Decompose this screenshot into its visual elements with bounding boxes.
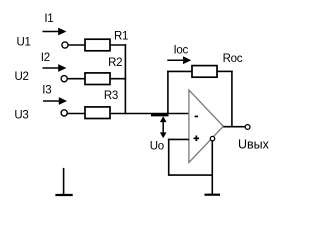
svg-text:U1: U1 — [17, 36, 31, 48]
current arrow I1 — [43, 28, 67, 36]
wire — [110, 44, 126, 46]
wire summing node to op-amp inverting input — [110, 113, 189, 115]
wire bottom — [168, 174, 212, 176]
input terminal U3 — [61, 110, 67, 116]
wire — [68, 113, 85, 115]
input terminal U2 — [61, 76, 67, 82]
svg-text:Uвых: Uвых — [238, 137, 270, 151]
op-amp common terminal on hypotenuse — [210, 136, 214, 140]
op-amp inverting pin mark — [195, 116, 198, 118]
svg-text:I3: I3 — [42, 85, 51, 97]
wire — [68, 44, 85, 46]
summing bus wire — [124, 44, 126, 114]
wire — [110, 78, 126, 80]
svg-text:I1: I1 — [44, 13, 53, 25]
svg-text:I2: I2 — [41, 52, 50, 64]
wire to ground — [211, 141, 213, 195]
svg-text:R2: R2 — [108, 57, 122, 69]
resistor Roc — [192, 66, 217, 78]
svg-text:Ioc: Ioc — [174, 45, 189, 57]
svg-text:R1: R1 — [114, 31, 128, 43]
resistor R3 — [85, 107, 110, 119]
op-amp non-inverting pin mark — [194, 136, 200, 142]
wire — [68, 78, 85, 80]
node thick segment at inverting input — [151, 114, 169, 116]
wire — [167, 70, 192, 72]
resistor R2 — [85, 73, 110, 85]
op-amp triangle — [189, 90, 223, 163]
feedback branch wire up — [167, 71, 169, 114]
input terminal U1 — [62, 42, 68, 48]
svg-text:R3: R3 — [104, 90, 118, 102]
svg-text:Roc: Roc — [223, 53, 243, 65]
output wire — [223, 126, 245, 128]
output terminal — [245, 125, 250, 130]
voltage arrow Uo (differential input) — [160, 116, 167, 138]
wire down — [168, 139, 170, 176]
svg-text:U3: U3 — [14, 109, 28, 121]
svg-text:Uo: Uo — [150, 141, 164, 153]
current arrow I3 — [43, 97, 67, 105]
resistor R1 — [85, 39, 110, 51]
current arrow Ioc — [167, 56, 191, 64]
wire — [217, 70, 233, 72]
ground (input common) — [55, 168, 72, 195]
non-inverting input wire — [168, 138, 189, 140]
feedback branch wire down to output — [231, 71, 233, 127]
ground (op-amp common) — [205, 194, 221, 196]
svg-text:U2: U2 — [15, 71, 29, 83]
current arrow I2 — [43, 64, 67, 72]
